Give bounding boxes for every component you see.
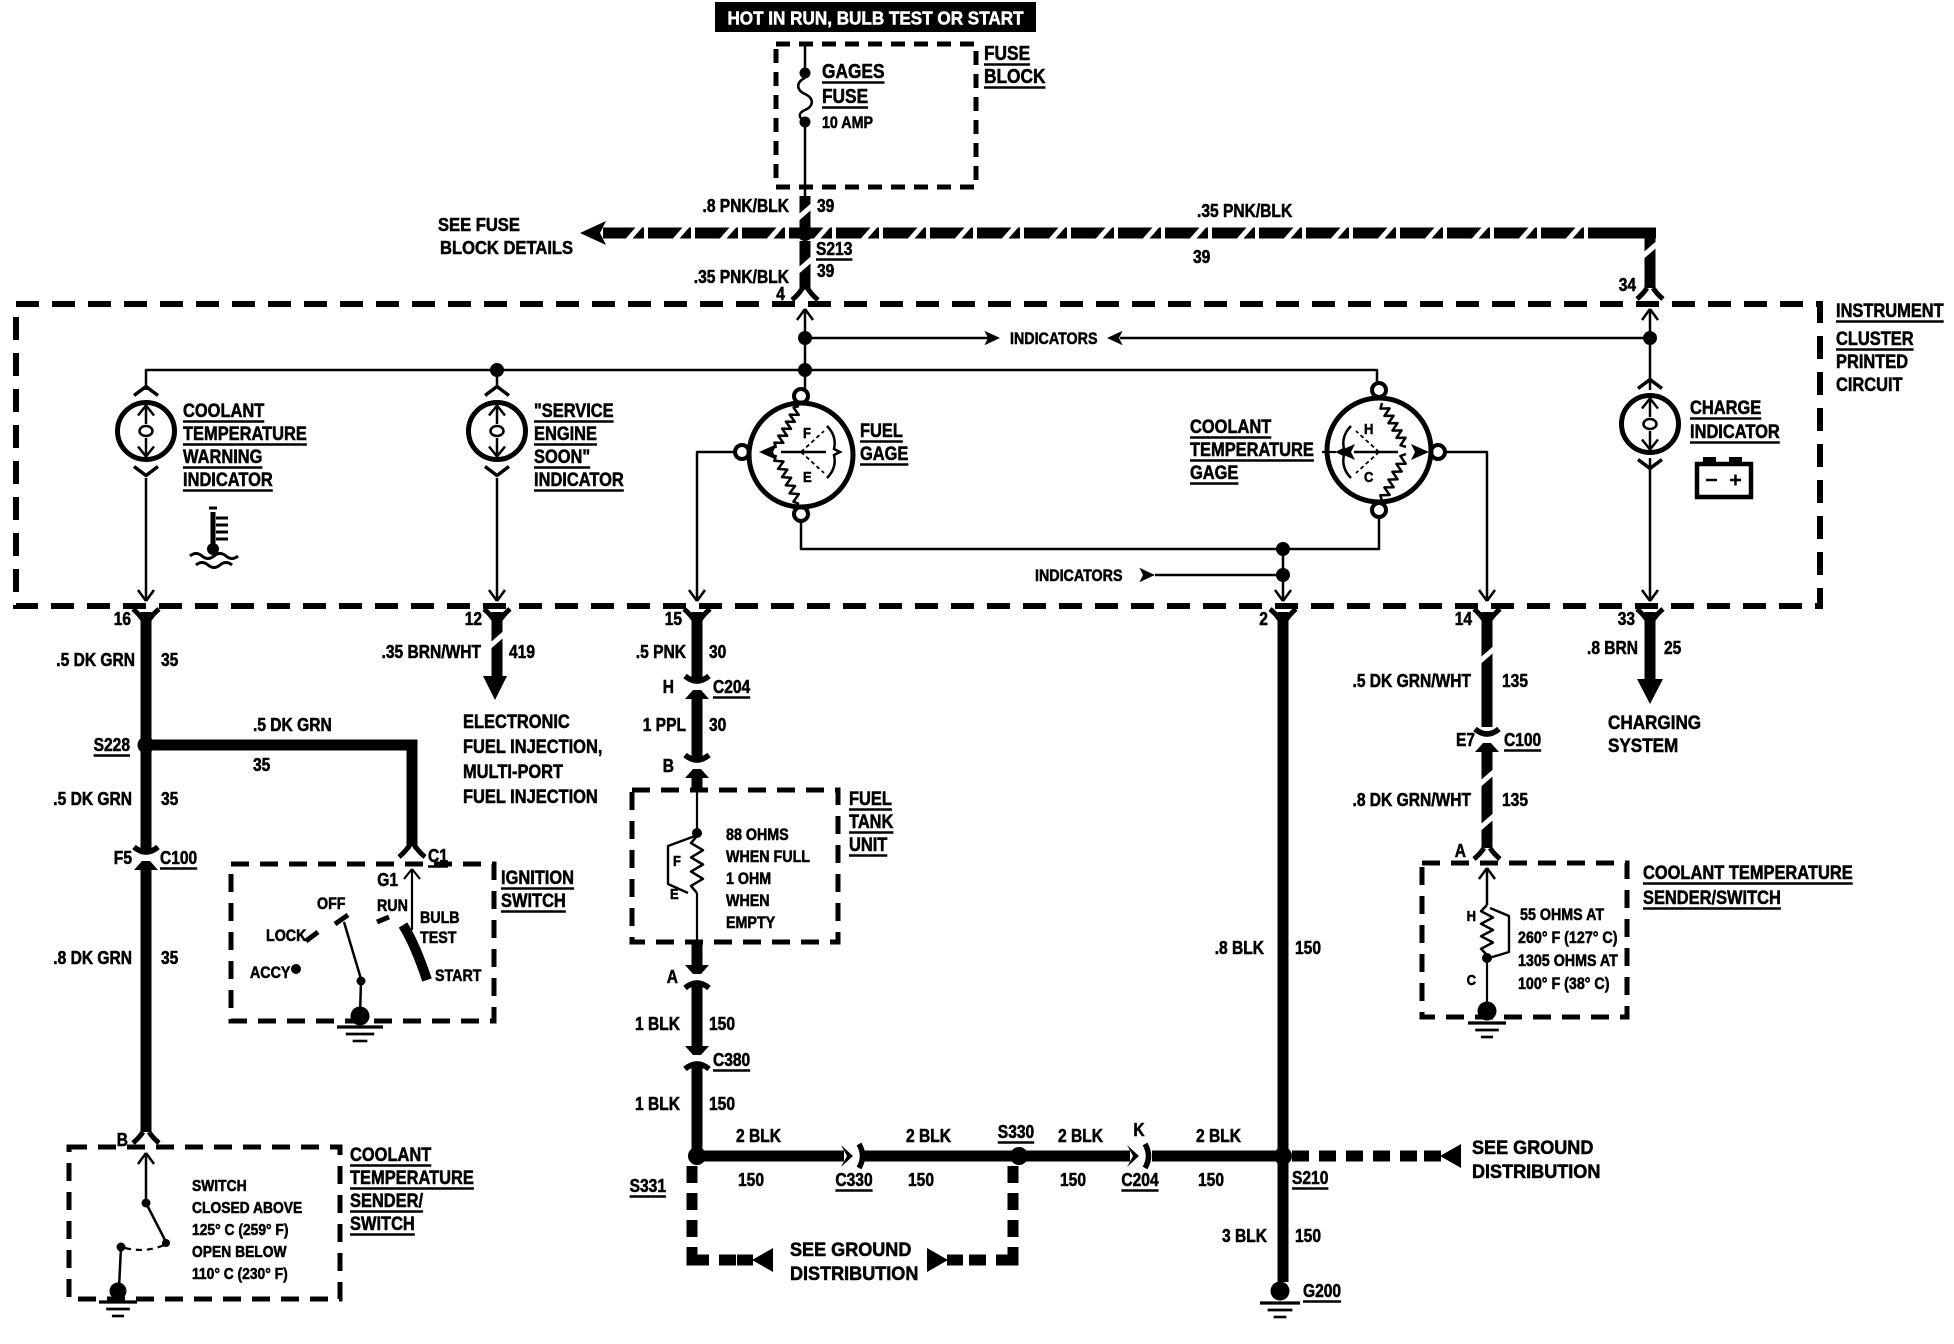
svg-text:2 BLK: 2 BLK — [736, 1126, 781, 1146]
svg-text:DISTRIBUTION: DISTRIBUTION — [790, 1264, 918, 1285]
svg-text:150: 150 — [908, 1170, 934, 1190]
svg-text:INDICATOR: INDICATOR — [183, 470, 273, 491]
wire 4 entry arrow — [804, 310, 807, 340]
arrow indicators right — [984, 331, 1000, 345]
svg-text:WARNING: WARNING — [183, 447, 262, 468]
svg-text:.8 BLK: .8 BLK — [1215, 938, 1264, 958]
connector A sender — [1474, 848, 1484, 859]
svg-text:S228: S228 — [94, 735, 130, 755]
svg-text:110° C (230° F): 110° C (230° F) — [192, 1266, 288, 1283]
svg-text:BLOCK DETAILS: BLOCK DETAILS — [440, 238, 573, 258]
svg-text:GAGES: GAGES — [822, 61, 885, 83]
splice S330 — [1010, 1147, 1028, 1165]
svg-text:ACCY: ACCY — [250, 964, 290, 982]
svg-text:C380: C380 — [713, 1050, 750, 1070]
ignition lever — [344, 922, 361, 979]
svg-text:35: 35 — [253, 755, 270, 775]
svg-text:PRINTED: PRINTED — [1836, 352, 1908, 373]
connector 4 into cluster — [792, 289, 802, 300]
wire 14 hatched b — [1482, 748, 1493, 848]
svg-text:C100: C100 — [1504, 730, 1541, 750]
svg-text:CHARGING: CHARGING — [1608, 713, 1701, 734]
wire F5 to B — [141, 866, 152, 1132]
connector 2 cluster exit — [1270, 609, 1280, 620]
svg-text:.8 DK GRN/WHT: .8 DK GRN/WHT — [1353, 790, 1472, 810]
svg-text:2: 2 — [1259, 609, 1268, 629]
svg-text:TEST: TEST — [420, 929, 457, 947]
wire s210-g200 — [1278, 1156, 1289, 1282]
svg-text:GAGE: GAGE — [860, 444, 908, 465]
svg-text:30: 30 — [709, 642, 726, 662]
svg-text:OPEN BELOW: OPEN BELOW — [192, 1244, 287, 1261]
node service bulb — [490, 363, 504, 377]
wire indicators lower — [1155, 574, 1283, 577]
wire 2 blk — [1278, 612, 1289, 1152]
ignition ground — [351, 1007, 370, 1026]
svg-text:HOT IN RUN, BULB TEST OR START: HOT IN RUN, BULB TEST OR START — [727, 9, 1023, 29]
svg-text:INDICATOR: INDICATOR — [534, 470, 624, 491]
svg-text:C204: C204 — [713, 677, 750, 697]
wire service bulb from bus — [496, 370, 499, 388]
svg-text:2 BLK: 2 BLK — [1058, 1126, 1103, 1146]
svg-text:F: F — [673, 853, 681, 870]
svg-text:A: A — [667, 967, 678, 987]
wire s330-c204 — [1019, 1151, 1130, 1162]
svg-text:INDICATORS: INDICATORS — [1035, 567, 1123, 585]
svg-text:DISTRIBUTION: DISTRIBUTION — [1472, 1162, 1600, 1183]
svg-text:100° F (38° C): 100° F (38° C) — [1518, 975, 1610, 993]
svg-text:C: C — [1364, 469, 1374, 486]
wire S228 branch to C1 — [146, 740, 412, 751]
svg-text:C100: C100 — [160, 848, 197, 868]
svg-text:ENGINE: ENGINE — [534, 424, 597, 445]
svg-text:SEE GROUND: SEE GROUND — [1472, 1138, 1593, 1159]
wire s331-c330 — [697, 1151, 844, 1162]
svg-text:S330: S330 — [998, 1122, 1034, 1142]
svg-text:35: 35 — [161, 650, 178, 670]
svg-text:.35 BRN/WHT: .35 BRN/WHT — [382, 642, 482, 662]
connector F5 C100 — [134, 847, 158, 852]
wire bulb12 down — [496, 478, 499, 600]
splice S213 — [797, 225, 813, 241]
svg-text:39: 39 — [1193, 247, 1210, 267]
svg-text:260° F (127° C): 260° F (127° C) — [1518, 929, 1618, 947]
node fuel gage feed — [798, 363, 812, 377]
connector H C204 — [685, 676, 709, 681]
svg-text:SEE GROUND: SEE GROUND — [790, 1240, 911, 1261]
svg-text:C204: C204 — [1121, 1170, 1158, 1190]
icon coolant thermometer — [211, 512, 216, 548]
connector C330 — [841, 1145, 853, 1167]
wire coolant gage to 14 — [1445, 452, 1487, 600]
svg-text:RUN: RUN — [377, 897, 408, 915]
svg-text:S331: S331 — [630, 1176, 666, 1196]
sender switch arrow — [145, 1154, 148, 1200]
svg-text:3 BLK: 3 BLK — [1222, 1226, 1267, 1246]
svg-text:150: 150 — [738, 1170, 764, 1190]
wire 34 entry arrow — [1649, 310, 1652, 340]
svg-text:12: 12 — [465, 609, 482, 629]
wire bulb33 down — [1649, 458, 1652, 600]
svg-text:INSTRUMENT: INSTRUMENT — [1836, 301, 1944, 322]
fuse GAGES FUSE 10A — [800, 68, 811, 79]
svg-text:COOLANT: COOLANT — [1190, 417, 1272, 438]
wire indicators upper left — [805, 337, 988, 340]
svg-text:LOCK: LOCK — [266, 927, 306, 945]
wire hatched S213 to 4 — [800, 241, 811, 290]
connector B tank — [685, 755, 709, 760]
splice S331 — [688, 1147, 706, 1165]
svg-text:K: K — [1133, 1120, 1144, 1140]
svg-text:39: 39 — [817, 196, 834, 216]
svg-text:15: 15 — [665, 609, 682, 629]
svg-text:SEE FUSE: SEE FUSE — [438, 215, 520, 235]
svg-text:UNIT: UNIT — [849, 835, 888, 856]
svg-text:G1: G1 — [377, 870, 398, 890]
svg-text:25: 25 — [1664, 638, 1681, 658]
wire 14 hatched a — [1482, 612, 1493, 727]
sender switch ground — [110, 1283, 127, 1300]
svg-text:FUSE: FUSE — [822, 86, 868, 108]
connector 34 into cluster — [1637, 288, 1647, 299]
svg-text:ELECTRONIC: ELECTRONIC — [463, 712, 570, 733]
svg-text:SOON": SOON" — [534, 447, 590, 468]
node feed-indicators — [798, 331, 812, 345]
wire node to indicators lower — [1282, 549, 1285, 577]
ignition G1 arrow — [411, 870, 413, 930]
svg-text:FUEL: FUEL — [860, 421, 903, 442]
svg-text:33: 33 — [1618, 609, 1635, 629]
svg-text:GAGE: GAGE — [1190, 463, 1238, 484]
svg-text:419: 419 — [509, 642, 535, 662]
svg-text:2 BLK: 2 BLK — [906, 1126, 951, 1146]
indicator bulb service engine soon — [485, 387, 509, 396]
svg-text:E: E — [803, 469, 812, 486]
svg-text:35: 35 — [161, 789, 178, 809]
svg-text:TANK: TANK — [849, 812, 894, 833]
connector 15 cluster exit — [684, 609, 694, 620]
svg-text:E7: E7 — [1456, 730, 1475, 750]
wire feed vertical to fuel gage — [804, 332, 807, 390]
wire into tank — [692, 774, 703, 792]
svg-text:10 AMP: 10 AMP — [822, 114, 873, 132]
node charge wire — [1643, 331, 1657, 345]
arrow to EFI — [483, 676, 507, 700]
coolant temp sender switch dashed box — [69, 1147, 340, 1299]
gage coolant temperature — [1372, 383, 1386, 397]
svg-text:MULTI-PORT: MULTI-PORT — [463, 762, 563, 783]
wire bulb16 down — [145, 478, 148, 600]
coolant temp sender switch right dashed box — [1422, 863, 1627, 1017]
splice S228 — [138, 737, 155, 754]
svg-text:16: 16 — [114, 609, 131, 629]
svg-text:135: 135 — [1502, 671, 1528, 691]
svg-text:TEMPERATURE: TEMPERATURE — [350, 1168, 474, 1189]
wire 16 dk grn — [141, 612, 152, 852]
fuse block dashed box — [776, 44, 976, 187]
sender right ground — [1478, 1002, 1497, 1021]
svg-text:"SERVICE: "SERVICE — [534, 401, 614, 422]
gage fuel — [735, 445, 749, 459]
svg-text:F5: F5 — [114, 848, 132, 868]
connector 16 cluster exit — [133, 609, 143, 620]
connector C1 — [399, 846, 409, 857]
svg-text:.5 DK GRN: .5 DK GRN — [56, 650, 135, 670]
wire fuse top — [804, 44, 807, 68]
node lower bus — [1276, 542, 1290, 556]
connector C380 — [685, 1046, 709, 1055]
svg-text:WHEN FULL: WHEN FULL — [726, 848, 810, 866]
connector K C204 bottom — [1127, 1145, 1139, 1167]
svg-text:INDICATOR: INDICATOR — [1690, 422, 1780, 443]
wire fuel gage to 15 — [697, 452, 735, 600]
svg-text:14: 14 — [1455, 609, 1472, 629]
svg-text:G200: G200 — [1303, 1281, 1341, 1301]
svg-text:H: H — [1467, 908, 1476, 925]
splice S210 — [1274, 1147, 1292, 1165]
svg-text:A: A — [1455, 841, 1466, 861]
svg-text:.8 PNK/BLK: .8 PNK/BLK — [703, 196, 790, 216]
svg-text:S213: S213 — [816, 239, 852, 259]
svg-text:B: B — [663, 756, 674, 776]
wire hatched feed to fuse block details — [580, 221, 606, 245]
svg-text:BULB: BULB — [420, 909, 460, 927]
connector 33 cluster exit — [1637, 609, 1647, 620]
svg-text:1 BLK: 1 BLK — [635, 1094, 680, 1114]
svg-text:IGNITION: IGNITION — [501, 868, 574, 889]
wire 15 pnk — [692, 612, 703, 680]
svg-text:SYSTEM: SYSTEM — [1608, 736, 1678, 757]
wire s210 ground branch — [1292, 1151, 1438, 1162]
svg-text:.35 PNK/BLK: .35 PNK/BLK — [1197, 201, 1292, 221]
sender switch contacts — [142, 1199, 151, 1208]
svg-text:.5 DK GRN: .5 DK GRN — [253, 715, 332, 735]
connector A tank — [685, 965, 709, 974]
svg-text:FUSE: FUSE — [984, 43, 1030, 65]
svg-text:.8 BRN: .8 BRN — [1587, 638, 1638, 658]
svg-text:150: 150 — [709, 1094, 735, 1114]
fuel tank unit dashed box — [632, 790, 838, 942]
ignition bulb-test start swash — [403, 925, 427, 980]
wire c380-s331 — [692, 1067, 703, 1156]
svg-text:35: 35 — [161, 948, 178, 968]
svg-text:88 OHMS: 88 OHMS — [726, 826, 789, 844]
indicator bulb charge — [1638, 380, 1662, 389]
svg-text:OFF: OFF — [317, 895, 346, 913]
wire c204-s210 — [1152, 1151, 1283, 1162]
svg-text:COOLANT: COOLANT — [183, 401, 265, 422]
svg-text:.5 PNK: .5 PNK — [636, 642, 686, 662]
svg-text:1 PPL: 1 PPL — [643, 715, 686, 735]
svg-text:34: 34 — [1619, 275, 1636, 295]
svg-text:2 BLK: 2 BLK — [1196, 1126, 1241, 1146]
svg-text:.5 DK GRN: .5 DK GRN — [53, 789, 132, 809]
svg-text:C330: C330 — [835, 1170, 872, 1190]
svg-text:B: B — [117, 1130, 128, 1150]
svg-text:150: 150 — [1295, 1226, 1321, 1246]
arrow indicators lower — [1139, 568, 1155, 582]
svg-text:F: F — [803, 425, 811, 442]
connector 14 cluster exit — [1474, 609, 1484, 620]
wire s330 ground branch — [948, 1166, 1013, 1260]
svg-text:30: 30 — [709, 715, 726, 735]
arrow to charging system — [1637, 679, 1663, 704]
svg-text:125° C (259° F): 125° C (259° F) — [192, 1222, 289, 1239]
ignition switch dashed box — [231, 864, 494, 1021]
arrow indicators left — [1107, 331, 1123, 345]
svg-text:EMPTY: EMPTY — [726, 914, 775, 932]
svg-text:150: 150 — [709, 1014, 735, 1034]
svg-text:SENDER/: SENDER/ — [350, 1191, 424, 1212]
wire fuel gage bottom bus — [801, 519, 1379, 549]
wire bus y370 — [146, 370, 1377, 390]
svg-text:C: C — [1467, 972, 1477, 989]
svg-text:FUEL INJECTION: FUEL INJECTION — [463, 787, 598, 808]
svg-text:TEMPERATURE: TEMPERATURE — [1190, 440, 1314, 461]
svg-text:WHEN: WHEN — [726, 892, 770, 910]
svg-text:CHARGE: CHARGE — [1690, 398, 1761, 419]
connector E7 C100 — [1475, 729, 1499, 734]
svg-text:SWITCH: SWITCH — [192, 1178, 247, 1195]
connector 12 cluster exit — [484, 609, 494, 620]
wire charge feed — [1649, 332, 1652, 390]
svg-text:1 BLK: 1 BLK — [635, 1014, 680, 1034]
sender right arrow — [1486, 869, 1489, 905]
svg-text:1305 OHMS AT: 1305 OHMS AT — [1518, 952, 1618, 970]
svg-text:SWITCH: SWITCH — [501, 891, 566, 912]
svg-text:55 OHMS AT: 55 OHMS AT — [1520, 906, 1604, 924]
ground G200 — [1271, 1282, 1290, 1301]
wire hatched down to 34 — [1645, 228, 1656, 288]
svg-text:COOLANT: COOLANT — [350, 1145, 432, 1166]
svg-text:39: 39 — [817, 261, 834, 281]
wire 2 exit — [1282, 575, 1285, 600]
svg-text:TEMPERATURE: TEMPERATURE — [183, 424, 307, 445]
wire s331 ground branch — [692, 1166, 752, 1260]
wire tank out — [692, 942, 703, 968]
svg-text:CLUSTER: CLUSTER — [1836, 329, 1914, 350]
svg-text:INDICATORS: INDICATORS — [1010, 330, 1098, 348]
fuel tank sender resistor — [696, 790, 698, 831]
wire c330-s330 — [864, 1151, 1018, 1162]
power feed banner HOT IN RUN — [715, 2, 1036, 32]
svg-text:150: 150 — [1295, 938, 1321, 958]
svg-text:CLOSED ABOVE: CLOSED ABOVE — [192, 1200, 302, 1217]
svg-text:.8 DK GRN: .8 DK GRN — [53, 948, 132, 968]
svg-text:SWITCH: SWITCH — [350, 1214, 415, 1235]
icon battery — [1697, 464, 1751, 497]
wire 33 brn — [1645, 612, 1656, 680]
svg-text:CIRCUIT: CIRCUIT — [1836, 375, 1903, 396]
svg-text:150: 150 — [1198, 1170, 1224, 1190]
svg-text:COOLANT TEMPERATURE: COOLANT TEMPERATURE — [1643, 863, 1853, 884]
wire a-c380 — [692, 986, 703, 1048]
wire indicators upper right — [1120, 337, 1650, 340]
wire fuse to S213 — [804, 127, 807, 198]
svg-text:1 OHM: 1 OHM — [726, 870, 771, 888]
svg-text:H: H — [1364, 421, 1373, 438]
svg-text:FUEL: FUEL — [849, 789, 892, 810]
svg-text:E: E — [670, 886, 679, 903]
connector B sender — [133, 1132, 143, 1143]
wire ppl — [692, 695, 703, 759]
svg-text:START: START — [435, 967, 482, 985]
svg-text:150: 150 — [1060, 1170, 1086, 1190]
svg-text:BLOCK: BLOCK — [984, 66, 1046, 88]
svg-text:135: 135 — [1502, 790, 1528, 810]
svg-text:.35 PNK/BLK: .35 PNK/BLK — [694, 267, 789, 287]
svg-text:.5 DK GRN/WHT: .5 DK GRN/WHT — [1353, 671, 1472, 691]
svg-text:H: H — [663, 677, 674, 697]
wire 12 hatched — [492, 612, 503, 676]
instrument cluster printed circuit dashed box — [16, 304, 1820, 606]
indicator bulb coolant temperature warning — [134, 387, 158, 396]
svg-text:S210: S210 — [1292, 1168, 1328, 1188]
svg-text:FUEL INJECTION,: FUEL INJECTION, — [463, 737, 602, 758]
svg-text:SENDER/SWITCH: SENDER/SWITCH — [1643, 888, 1781, 909]
